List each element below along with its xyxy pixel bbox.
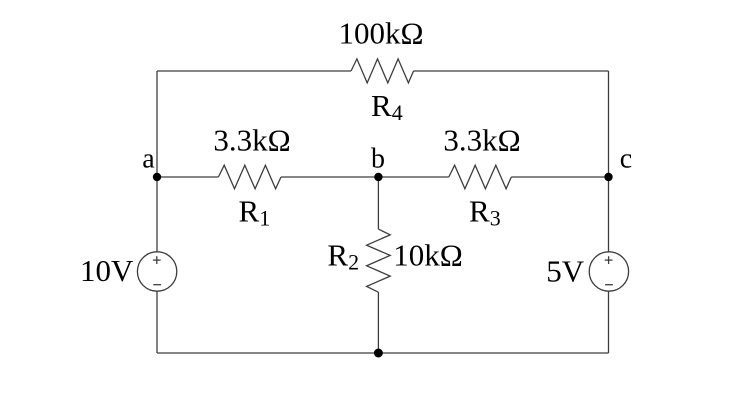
svg-text:R1: R1 <box>239 194 271 231</box>
resistor R4 zigzag <box>351 59 414 83</box>
voltage source V2 5V circle <box>589 252 628 291</box>
wire R3 to c <box>511 176 608 178</box>
svg-text:R2: R2 <box>327 238 359 275</box>
wire a down to 10V source <box>156 177 158 252</box>
wire top horizontal left of R4 <box>157 70 351 72</box>
svg-text:5V: 5V <box>546 253 585 288</box>
svg-text:c: c <box>620 144 632 175</box>
resistor R1 zigzag <box>218 165 281 189</box>
voltage source V1 10V circle <box>137 252 176 291</box>
V1 plus sign <box>153 259 161 261</box>
node a junction dot <box>153 173 161 181</box>
svg-text:b: b <box>371 143 385 174</box>
svg-text:a: a <box>142 144 155 175</box>
svg-text:R4: R4 <box>371 88 403 125</box>
svg-text:10kΩ: 10kΩ <box>393 237 463 272</box>
wire bottom horizontal <box>157 352 609 354</box>
wire 5V source to bottom-right corner <box>608 291 610 353</box>
V1 minus sign <box>153 284 161 286</box>
wire top-left vertical (a to top corner) <box>156 71 158 177</box>
resistor R2 zigzag <box>367 229 391 292</box>
svg-text:3.3kΩ: 3.3kΩ <box>213 123 290 158</box>
wire right vertical (top corner to c) <box>608 71 610 177</box>
wire 10V source to bottom-left corner <box>156 291 158 353</box>
svg-text:10V: 10V <box>80 253 134 288</box>
wire b down to R2 <box>377 177 379 229</box>
svg-text:R3: R3 <box>469 194 501 231</box>
wire top horizontal right of R4 <box>414 70 609 72</box>
svg-text:3.3kΩ: 3.3kΩ <box>443 123 520 158</box>
wire c down to 5V source <box>608 177 610 252</box>
svg-text:100kΩ: 100kΩ <box>338 16 423 51</box>
bottom junction dot <box>374 349 383 358</box>
wire R2 to bottom node <box>377 292 379 353</box>
resistor R3 zigzag <box>449 165 512 189</box>
node b junction dot <box>374 173 382 181</box>
wire R1 to b <box>281 176 378 178</box>
wire b to R3 <box>378 176 448 178</box>
wire a to R1 <box>157 176 218 178</box>
node c junction dot <box>604 173 612 181</box>
V2 minus sign <box>605 284 613 286</box>
V2 plus sign <box>605 259 613 261</box>
